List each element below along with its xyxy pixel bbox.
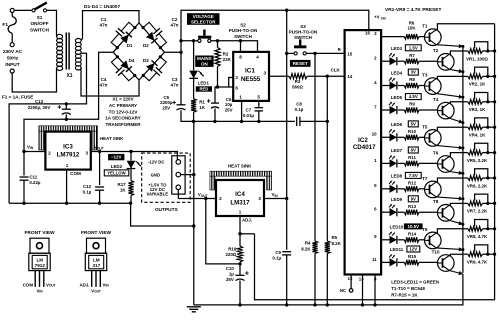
svg-text:VR2, 1K: VR2, 1K bbox=[469, 82, 486, 87]
svg-text:VR1, 100Ω: VR1, 100Ω bbox=[466, 56, 488, 61]
wire: VR7 to right bus bbox=[483, 202, 495, 204]
wire: VR7 wiper loop bbox=[475, 194, 488, 203]
junction T3 emitter / chain bbox=[461, 96, 464, 99]
capacitor C7 bbox=[255, 108, 264, 111]
svg-text:5V: 5V bbox=[411, 122, 416, 127]
front view LM317 package bbox=[79, 230, 111, 293]
svg-text:VR6, 2.2K: VR6, 2.2K bbox=[467, 183, 488, 188]
wire: R2 to IC1 pins 2 and 6 bbox=[218, 67, 234, 88]
wire: R3 to CLK pin 14 bbox=[307, 75, 344, 77]
svg-text:VR9, 4.7K: VR9, 4.7K bbox=[467, 260, 488, 265]
svg-text:VR4, 1K: VR4, 1K bbox=[469, 133, 486, 138]
svg-text:IC1: IC1 bbox=[245, 68, 255, 75]
svg-text:6: 6 bbox=[235, 86, 238, 91]
wire: T7 collector to node above bbox=[436, 178, 463, 182]
heat sink IC3 bbox=[39, 126, 98, 150]
wire: pin 13 to bottom rail bbox=[362, 275, 364, 305]
LED10 green bbox=[389, 232, 397, 244]
label box YELLOW bbox=[104, 170, 129, 176]
capacitor C5 bbox=[172, 101, 185, 110]
junction ADJ / bus branch bbox=[238, 232, 241, 235]
wire: Vin branch to C9 bbox=[286, 199, 288, 250]
value box 3V bbox=[408, 69, 418, 75]
wire: R13 to transistor base bbox=[419, 211, 438, 213]
switch S3 push-to-on bbox=[294, 39, 306, 55]
junction GND terminal / ground vertical bbox=[192, 173, 195, 176]
wire: S2 to R2 bbox=[217, 41, 219, 48]
svg-text:LED8: LED8 bbox=[391, 174, 403, 179]
wire: S3 to reset pin 15 bbox=[306, 52, 344, 54]
transistor T5 bbox=[425, 130, 442, 147]
svg-text:11: 11 bbox=[372, 257, 377, 262]
value box 10.5V bbox=[404, 223, 423, 229]
svg-text:T8: T8 bbox=[433, 199, 439, 204]
LED11 green bbox=[389, 254, 397, 266]
junction Vout / feedback bbox=[204, 197, 207, 200]
wire: LED9 to R13 bbox=[398, 211, 405, 213]
svg-text:VIN: VIN bbox=[27, 144, 34, 150]
preset VR9 bbox=[468, 252, 483, 257]
wire: VR2 to right bus bbox=[483, 75, 495, 77]
svg-text:R13: R13 bbox=[408, 204, 417, 209]
svg-text:OUTPUTS: OUTPUTS bbox=[155, 207, 179, 213]
svg-text:16: 16 bbox=[365, 31, 370, 36]
junction R16 / C10 / feedback bbox=[238, 262, 241, 265]
wire: bridge plus output bbox=[165, 51, 182, 53]
svg-text:5: 5 bbox=[257, 95, 260, 100]
LED4 green bbox=[389, 78, 397, 90]
svg-text:VR5, 2.2K: VR5, 2.2K bbox=[467, 158, 488, 163]
svg-text:1: 1 bbox=[239, 210, 242, 215]
junction S3 / R4 branch bbox=[313, 52, 316, 55]
capacitor C3 bbox=[142, 55, 167, 80]
svg-text:3V: 3V bbox=[411, 70, 416, 75]
wire: VR4 to right bus bbox=[483, 126, 495, 128]
wire: LED3 to R7 bbox=[398, 60, 405, 62]
svg-text:RED: RED bbox=[199, 87, 208, 92]
svg-text:VR3, 1K: VR3, 1K bbox=[469, 107, 486, 112]
junction VR7 wiper bbox=[486, 202, 489, 205]
wire: pin 12 to NC bbox=[350, 275, 352, 289]
transistor T7 bbox=[425, 181, 442, 198]
NC terminal bbox=[349, 289, 353, 293]
junction pin13 / bottom rail bbox=[361, 303, 364, 306]
svg-text:2: 2 bbox=[235, 75, 238, 80]
wire: bridge diamond bbox=[113, 23, 164, 80]
junction R2 tap bbox=[216, 39, 219, 42]
junction VR4 / right bus bbox=[493, 126, 496, 129]
svg-text:T1: T1 bbox=[422, 24, 428, 29]
wire: IC4 Vin bbox=[264, 198, 287, 200]
wire: R12 to transistor base bbox=[419, 188, 425, 190]
wire: IC2 pin to LED11 bbox=[381, 261, 389, 263]
value box 9V bbox=[408, 196, 418, 202]
transistor T9 bbox=[425, 232, 442, 249]
wire: VR4 wiper loop bbox=[475, 118, 488, 127]
svg-text:IC2: IC2 bbox=[358, 137, 368, 144]
wire: VR8 to right bus bbox=[483, 228, 495, 230]
wire: T9 emitter to chain bbox=[436, 247, 463, 251]
junction C11 / Vin bbox=[22, 150, 25, 153]
wire: IC2 pin to LED4 bbox=[381, 85, 389, 87]
outputs terminal strip bbox=[172, 156, 185, 194]
wire: IC2 pin to LED10 bbox=[381, 239, 389, 241]
wire: T10 collector to node above bbox=[449, 254, 463, 255]
preset VR8 bbox=[468, 226, 483, 231]
svg-text:COM: COM bbox=[23, 282, 34, 287]
junction VR4 wiper bbox=[486, 126, 489, 129]
wire: R7 to transistor base bbox=[419, 60, 438, 62]
transistor T1 bbox=[425, 29, 442, 46]
svg-text:CD4017: CD4017 bbox=[353, 144, 376, 151]
wire: R11 to transistor base bbox=[419, 162, 438, 164]
wire: C9 to bottom rail bbox=[286, 255, 288, 305]
svg-text:X1: X1 bbox=[66, 73, 72, 79]
junction bridge plus / C5 bbox=[179, 51, 182, 54]
junction +12V S2 tap bbox=[179, 39, 182, 42]
wire: VR9 wiper loop bbox=[475, 245, 488, 254]
svg-text:LM317: LM317 bbox=[230, 200, 250, 207]
svg-text:VR8, 4.7K: VR8, 4.7K bbox=[467, 234, 488, 239]
svg-text:2: 2 bbox=[48, 150, 51, 155]
wire: LED10 to R14 bbox=[398, 239, 405, 241]
wire: R8 to transistor base bbox=[419, 85, 425, 87]
svg-text:D3: D3 bbox=[143, 58, 149, 63]
outputs terminal box (dashed) bbox=[142, 153, 191, 202]
svg-text:8: 8 bbox=[239, 54, 242, 59]
svg-text:LM7912: LM7912 bbox=[57, 152, 80, 159]
junction C6 / ground rail bbox=[213, 120, 216, 123]
wire: T2 collector to node above bbox=[449, 51, 463, 54]
wire: T9 collector to node above bbox=[436, 229, 463, 233]
transformer X1 secondary winding bbox=[75, 39, 81, 71]
preset VR3 bbox=[468, 99, 483, 104]
svg-text:ADJ.: ADJ. bbox=[79, 282, 89, 287]
wire: variable output terminal link bbox=[177, 190, 179, 199]
resistor R1 bbox=[191, 99, 196, 113]
junction VR2 wiper bbox=[486, 75, 489, 78]
diode D1 bbox=[120, 32, 132, 44]
junction R2 / pins 2-6 node bbox=[216, 85, 219, 88]
wire: IC2 pin to LED9 bbox=[381, 211, 389, 213]
svg-text:F1: F1 bbox=[2, 22, 8, 28]
junction VR3 / right bus bbox=[493, 100, 496, 103]
wire: VR9 to right bus bbox=[483, 253, 495, 255]
wire: LED4 to R8 bbox=[398, 85, 405, 87]
wire: T6 collector to node above bbox=[449, 153, 463, 157]
svg-text:C147n: C147n bbox=[100, 17, 108, 28]
wire: R4 to bottom rail bbox=[314, 254, 316, 305]
wire: chain to VR3 bbox=[463, 101, 468, 103]
svg-text:3: 3 bbox=[86, 150, 89, 155]
LED6 green bbox=[389, 129, 397, 141]
wire: chain to VR5 bbox=[463, 152, 468, 154]
wire: VR5 to right bus bbox=[483, 152, 495, 154]
svg-text:12: 12 bbox=[348, 276, 353, 281]
svg-text:T3: T3 bbox=[422, 73, 428, 78]
svg-text:317: 317 bbox=[92, 263, 100, 268]
junction LED1 tap bbox=[192, 39, 195, 42]
wire: secondary top to bridge top rail bbox=[81, 11, 139, 40]
value box 4.5V bbox=[405, 94, 421, 100]
label box RESET bbox=[290, 60, 311, 67]
junction VR9 / right bus bbox=[493, 253, 496, 256]
transistor T4 bbox=[438, 102, 455, 119]
junction T6 emitter / chain bbox=[461, 172, 464, 175]
preset VR7 bbox=[468, 201, 483, 206]
wire: R6 to T1 base bbox=[419, 36, 425, 38]
value box 1.5V bbox=[405, 45, 421, 51]
wire: R17 to ground rail bbox=[130, 196, 132, 204]
svg-text:+V: +V bbox=[374, 15, 380, 20]
svg-text:T6: T6 bbox=[433, 150, 439, 155]
wire: LED1 anode bbox=[193, 41, 195, 71]
wire: LED7 to R11 bbox=[398, 162, 405, 164]
wire: chain to VR7 bbox=[463, 202, 468, 204]
LED3 green bbox=[389, 53, 397, 65]
svg-text:F1 = 1A, FUSE: F1 = 1A, FUSE bbox=[2, 95, 33, 100]
junction COM / ground rail bbox=[65, 202, 68, 205]
value box 7.5V bbox=[405, 172, 421, 178]
wire: T3 collector to node above bbox=[436, 76, 463, 78]
wire: secondary centre tap to ground bus bbox=[9, 53, 86, 203]
resistor R14 bbox=[404, 237, 419, 242]
svg-text:14: 14 bbox=[347, 74, 352, 79]
LED8 green bbox=[389, 181, 397, 193]
AC input terminal upper bbox=[10, 43, 14, 47]
svg-text:4: 4 bbox=[256, 54, 259, 59]
junction LED2 tap bbox=[129, 150, 132, 153]
svg-text:-12V DC: -12V DC bbox=[148, 160, 164, 165]
wire: T7 emitter to chain bbox=[436, 196, 463, 200]
junction C10 / bottom rail bbox=[238, 303, 241, 306]
junction C11 / ground rail bbox=[22, 202, 25, 205]
junction VR3 wiper bbox=[486, 100, 489, 103]
counter IC2 CD4017 body bbox=[345, 30, 382, 274]
svg-text:T4: T4 bbox=[433, 97, 439, 102]
heat sink IC4 bbox=[210, 171, 272, 190]
transistor T10 bbox=[438, 255, 455, 272]
junction S3 left terminal bbox=[285, 52, 288, 55]
capacitor C2 bbox=[142, 22, 167, 49]
wire: T2 emitter to chain bbox=[449, 69, 463, 73]
svg-text:1.5V: 1.5V bbox=[409, 45, 418, 50]
wire: S2 to IC1 pins 8 and 4 bbox=[211, 41, 258, 52]
svg-text:VOUT: VOUT bbox=[46, 282, 56, 287]
wire: chain to VR8 bbox=[463, 228, 468, 230]
op-amp timer IC1 NE555 body bbox=[233, 52, 269, 101]
junction VR7 / right bus bbox=[493, 202, 496, 205]
wire: T4 emitter to chain bbox=[449, 118, 463, 123]
svg-text:C120.1µ: C120.1µ bbox=[83, 184, 92, 194]
resistor R9 bbox=[404, 107, 419, 112]
wire: GND terminal link bbox=[181, 174, 194, 176]
junction Vin / +12V branch bbox=[285, 197, 288, 200]
wire: C5 to 555 ground rail bbox=[181, 110, 295, 121]
svg-text:T7: T7 bbox=[422, 176, 428, 181]
terminal GND bbox=[176, 172, 181, 177]
svg-text:LED2: LED2 bbox=[111, 164, 123, 169]
svg-text:R11K: R11K bbox=[199, 99, 206, 110]
diode D2 bbox=[146, 32, 158, 44]
junction C9 / bottom rail bbox=[285, 303, 288, 306]
svg-text:LED4: LED4 bbox=[391, 70, 403, 75]
svg-text:FRONT VIEW: FRONT VIEW bbox=[24, 230, 55, 236]
wire: chain to VR1 bbox=[463, 50, 468, 52]
wire: T5 emitter to chain bbox=[436, 145, 463, 149]
svg-text:3: 3 bbox=[264, 70, 267, 75]
resistor R6 bbox=[404, 34, 419, 39]
svg-text:IC4: IC4 bbox=[235, 191, 245, 198]
junction VR6 / right bus bbox=[493, 176, 496, 179]
wire: LED11 to R15 bbox=[398, 261, 405, 263]
preset VR2 bbox=[468, 74, 483, 79]
svg-text:LED11: LED11 bbox=[390, 247, 404, 252]
wire: T4 collector to node above bbox=[449, 102, 463, 103]
svg-text:C347n: C347n bbox=[171, 77, 179, 88]
capacitor C13 bbox=[58, 105, 71, 114]
transistor T2 bbox=[438, 54, 455, 71]
svg-text:2: 2 bbox=[219, 196, 222, 201]
wire: R15 to transistor base bbox=[419, 261, 438, 263]
wire: IC4 ADJ down bbox=[239, 216, 241, 246]
svg-text:D2: D2 bbox=[143, 43, 149, 48]
regulator IC4 LM317 body bbox=[216, 180, 264, 216]
junction IC1 pin8 tap bbox=[239, 39, 242, 42]
capacitor C1 bbox=[111, 22, 136, 49]
wire: +12V branch down to S3 and IC4 bbox=[286, 10, 288, 198]
svg-text:VR7, 2.2K: VR7, 2.2K bbox=[467, 209, 488, 214]
label box MAINS ON bbox=[195, 56, 213, 67]
junction VR9 wiper bbox=[486, 253, 489, 256]
capacitor C6 bbox=[207, 99, 219, 108]
wire: pin2 link bbox=[229, 78, 234, 88]
wire: LED8 to R12 bbox=[398, 188, 405, 190]
resistor R12 bbox=[404, 186, 419, 191]
svg-text:4.5V: 4.5V bbox=[409, 94, 418, 99]
svg-text:D4: D4 bbox=[129, 58, 135, 63]
junction R17 / ground rail bbox=[129, 202, 132, 205]
svg-text:FRONT VIEW: FRONT VIEW bbox=[81, 230, 112, 236]
junction C13 top bbox=[65, 102, 68, 105]
wire: secondary bottom to bridge bottom bbox=[81, 67, 139, 96]
label box -12V bbox=[108, 154, 124, 160]
wire: IC2 pin to LED3 bbox=[381, 60, 389, 62]
wire: chain bottom bbox=[194, 274, 463, 305]
svg-text:LED7: LED7 bbox=[391, 148, 403, 153]
svg-text:−12V: −12V bbox=[111, 155, 122, 160]
wire: C6 to ground rail bbox=[214, 108, 216, 121]
svg-text:LM: LM bbox=[93, 257, 100, 262]
svg-text:HEAT SINK: HEAT SINK bbox=[228, 163, 252, 168]
wire: IC1 pin 8 feed bbox=[240, 41, 242, 52]
label box RED bbox=[196, 86, 212, 91]
wire: +12V to S2 bbox=[181, 40, 198, 42]
front view LM7912 package bbox=[23, 230, 56, 293]
junction R5 / bottom rail bbox=[326, 303, 329, 306]
wire: lower input terminal to primary return bbox=[12, 69, 56, 92]
svg-text:R11: R11 bbox=[408, 155, 416, 160]
svg-text:CLK: CLK bbox=[331, 68, 341, 73]
svg-text:LED3: LED3 bbox=[391, 46, 403, 51]
svg-text:D1: D1 bbox=[127, 43, 133, 48]
wire: C11 upper bbox=[23, 152, 25, 176]
diode D3 bbox=[146, 60, 158, 72]
wire: R5 to bottom rail bbox=[326, 254, 328, 305]
junction C8 / R5 vertical bbox=[326, 120, 329, 123]
svg-text:C247n: C247n bbox=[171, 17, 179, 28]
wire: IC4 Vout bbox=[178, 198, 216, 200]
svg-text:LED1: LED1 bbox=[198, 81, 210, 86]
value box 12V bbox=[407, 246, 420, 252]
junction T1 emitter / chain bbox=[461, 45, 464, 48]
wire: T3 emitter to chain bbox=[436, 94, 463, 99]
svg-text:LED10: LED10 bbox=[390, 225, 404, 230]
wire: LED1 cathode to R1 bbox=[193, 77, 195, 99]
svg-text:COM: COM bbox=[70, 171, 81, 176]
wire: IC1 pin1 to ground rail bbox=[241, 101, 243, 122]
svg-text:SELECTOR: SELECTOR bbox=[191, 19, 216, 24]
junction C13 bottom bbox=[65, 118, 68, 121]
junction CLK / R5 branch bbox=[326, 75, 329, 78]
wire: +12V rail to voltage selector bus bbox=[181, 10, 369, 52]
junction VR6 wiper bbox=[486, 176, 489, 179]
svg-text:6V: 6V bbox=[411, 148, 416, 153]
wire: chain to VR9 bbox=[463, 253, 468, 255]
resistor R7 bbox=[404, 59, 419, 64]
wire: bottom ground rail bbox=[193, 226, 195, 305]
wire: R9 to transistor base bbox=[419, 109, 438, 111]
svg-text:IC3: IC3 bbox=[63, 144, 73, 151]
wire: switch S1 to transformer primary bbox=[47, 10, 57, 33]
svg-text:T10: T10 bbox=[432, 249, 440, 254]
junction R1 / ground rail bbox=[192, 120, 195, 123]
label box VOLTAGE SELECTOR bbox=[187, 13, 220, 25]
svg-text:12V: 12V bbox=[409, 247, 417, 252]
wire: T10 emitter to chain bbox=[449, 271, 463, 276]
svg-text:VIN: VIN bbox=[272, 192, 279, 198]
wire: live terminal down to fuse F1 bbox=[11, 12, 13, 16]
mains live terminal bbox=[10, 8, 14, 12]
wire: primary winding stubs bbox=[56, 34, 58, 70]
junction jog / centre ground vertical bbox=[192, 224, 195, 227]
diode D4 bbox=[120, 60, 132, 72]
wire: LED2 anode bbox=[130, 152, 132, 161]
svg-text:VIN: VIN bbox=[36, 289, 43, 294]
wire: VR1 to right bus bbox=[483, 50, 495, 52]
wire: LED6 to R10 bbox=[398, 136, 405, 138]
resistor R2 bbox=[215, 48, 220, 67]
wire: IC3 Vin bbox=[24, 151, 45, 153]
wire: C12 to ground rail bbox=[99, 190, 101, 203]
LED2 yellow -12V indicator bbox=[127, 161, 142, 169]
svg-text:15: 15 bbox=[347, 51, 352, 56]
junction T2 emitter / chain bbox=[461, 70, 464, 73]
LED1 red mains indicator bbox=[189, 71, 204, 79]
svg-text:7.5V: 7.5V bbox=[409, 173, 418, 178]
wire: ADJ bus from LM317 bbox=[255, 234, 495, 300]
transformer X1 core bbox=[66, 33, 69, 70]
svg-text:NE555: NE555 bbox=[241, 76, 261, 83]
fuse F1 bbox=[8, 17, 16, 34]
wire: VR3 to right bus bbox=[483, 101, 495, 103]
svg-text:10.5V: 10.5V bbox=[408, 224, 420, 229]
wire: VR2 wiper loop bbox=[475, 67, 488, 76]
junction +12V rail to S3 branch bbox=[285, 9, 288, 12]
capacitor C8 bbox=[297, 117, 300, 126]
wire: C7 to ground rail bbox=[258, 112, 260, 122]
resistor R10 bbox=[404, 135, 419, 140]
